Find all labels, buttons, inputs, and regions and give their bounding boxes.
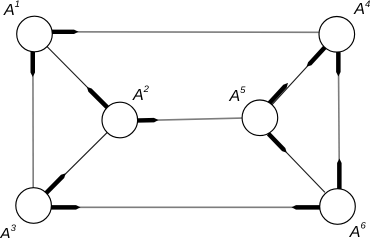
wire edge A1-A4 top horizontal (52, 31, 319, 34)
wire edge A1-A2 diagonal (47, 47, 107, 107)
bold half-edge at A4 toward A6 (336, 52, 341, 76)
bold half-edge at A4 toward A5 (307, 46, 327, 67)
wire edge A2-A5 middle horizontal (138, 118, 242, 121)
node A5 circle (242, 100, 278, 136)
svg-text:A2: A2 (132, 84, 150, 104)
node A3 circle (16, 188, 52, 224)
svg-text:A5: A5 (229, 85, 247, 105)
wire edge A4-A5 diagonal (272, 48, 325, 105)
bold half-edge at A1 toward A4 (52, 30, 79, 34)
wire edge A3-A6 bottom horizontal (52, 206, 320, 208)
svg-text:A4: A4 (353, 0, 370, 18)
bold half-edge at A2 toward A5 (134, 118, 159, 123)
bold half-edge at A5 toward A6 (267, 132, 287, 153)
bold half-edge at A3 toward A6 (51, 205, 80, 210)
svg-text:A6: A6 (349, 221, 367, 238)
bold half-edge at A2 toward A1 (87, 87, 110, 110)
wire edge A4-A6 right vertical (338, 52, 339, 188)
node A4 circle (319, 17, 355, 53)
wire edge A1-A3 left vertical (32, 52, 34, 188)
wire edge A5-A6 diagonal (269, 134, 325, 193)
node A1 circle (17, 16, 53, 52)
bold half-edge at A5 toward A4 (268, 83, 288, 105)
svg-text:A3: A3 (0, 223, 17, 238)
svg-text:A1: A1 (3, 0, 20, 19)
bold half-edge at A3 toward A2 (44, 173, 65, 195)
wire edge A2-A3 diagonal (46, 133, 107, 193)
bold half-edge at A6 toward A4 (337, 159, 342, 189)
bold half-edge at A1 toward A3 (31, 50, 36, 77)
node A6 circle (320, 189, 356, 225)
node A2 circle (102, 102, 138, 138)
bold half-edge at A6 toward A3 (292, 205, 320, 210)
